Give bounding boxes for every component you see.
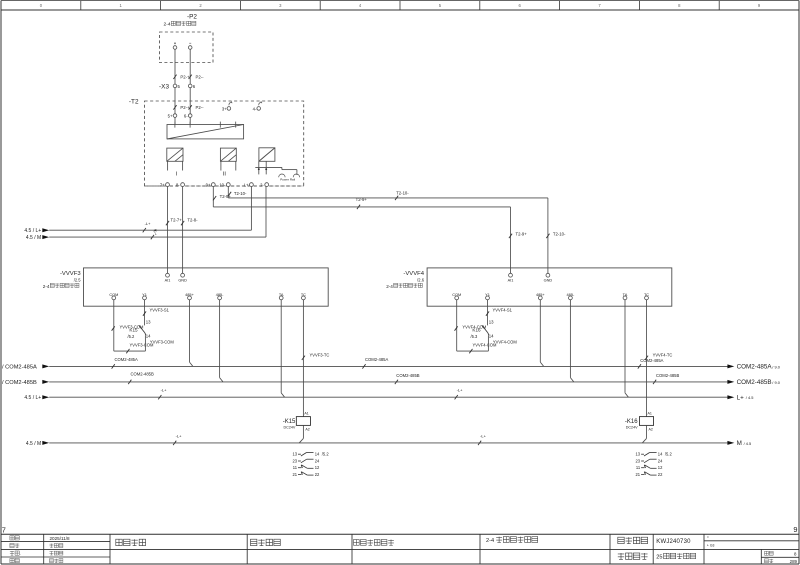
wire T2-10- to VVVF4 GND (228, 187, 566, 274)
bus L+ right arrow (727, 394, 753, 401)
VFD VVVF3 box (84, 268, 329, 306)
label DC24V K15 (284, 425, 296, 429)
svg-text:/2.5: /2.5 (74, 278, 82, 283)
svg-text:11: 11 (636, 465, 641, 470)
svg-text:TC: TC (644, 293, 649, 297)
title cell drawing name 2-4 chilled water supply pump (486, 537, 538, 544)
T2 channel II module (220, 148, 236, 170)
svg-text:T2-9+: T2-9+ (516, 231, 528, 236)
power rail symbol (279, 173, 300, 182)
svg-text:COM: COM (109, 293, 118, 297)
bus COM2-485B marks (128, 372, 679, 385)
svg-text:485+: 485+ (185, 293, 194, 297)
svg-text:COM2-485A: COM2-485A (737, 364, 773, 371)
power rail link (255, 167, 297, 172)
svg-text:24: 24 (658, 458, 663, 463)
svg-text:5+: 5+ (168, 114, 173, 119)
svg-text:T2-10-: T2-10- (553, 231, 566, 236)
svg-text:6-: 6- (184, 114, 188, 119)
svg-text:13: 13 (292, 452, 297, 457)
svg-text:Y1: Y1 (142, 293, 147, 297)
svg-text:II: II (223, 172, 227, 178)
svg-text:-K15: -K15 (283, 419, 296, 425)
svg-text:2-: 2- (260, 183, 264, 188)
T2 box bottom dashed edge (145, 185, 304, 187)
arrow 4.5/M at top (26, 235, 49, 241)
svg-text:DC24V: DC24V (626, 425, 638, 429)
svg-text:K16: K16 (472, 327, 481, 332)
terminal strip X3 (159, 84, 169, 91)
K15 contact cross reference (292, 452, 329, 477)
svg-text:YVVF3-COM: YVVF3-COM (150, 340, 174, 345)
svg-text:COM: COM (452, 293, 461, 297)
wire P2-- upper (189, 49, 191, 84)
svg-text:COM2-485B: COM2-485B (396, 373, 419, 378)
svg-text:YVVF4-COM: YVVF4-COM (493, 340, 517, 345)
VVVF4 terminal TA (623, 293, 628, 300)
svg-text:-L-: -L- (153, 229, 157, 233)
label DC24V K16 (626, 425, 638, 429)
svg-text:A2: A2 (305, 428, 309, 432)
svg-text:8-: 8- (176, 183, 180, 188)
svg-text:/ COM2-485B: / COM2-485B (2, 380, 37, 386)
label -P2 (187, 14, 197, 21)
cable mark P2-- upper (189, 74, 204, 79)
bus COM2-485A left arrow (2, 364, 49, 370)
svg-text:A1: A1 (304, 412, 308, 416)
wire T2-8- to VVVF3 GND (181, 187, 198, 274)
bus M marks (173, 433, 487, 445)
svg-text:3+: 3+ (222, 107, 227, 112)
title cell project description (116, 539, 146, 545)
svg-text:25: 25 (656, 555, 662, 561)
title block grid (1, 534, 799, 564)
P2 terminal + (173, 42, 177, 49)
label YVVF4-COM right of pin14 (493, 340, 517, 345)
title cell total count (765, 559, 798, 564)
label YVVF3-COM below contact (130, 343, 154, 348)
svg-text:485-: 485- (567, 293, 575, 297)
bus COM2-485B right arrow (727, 379, 780, 386)
svg-text:COM2-485B: COM2-485B (737, 379, 772, 386)
T2 terminal 4- (253, 101, 262, 111)
svg-text:/5.2: /5.2 (322, 452, 330, 457)
label YVVF3-COM on COM wire (120, 324, 144, 329)
svg-text:COM2-485A: COM2-485A (115, 357, 138, 362)
svg-text:7: 7 (2, 525, 6, 534)
svg-text:COM2-485B: COM2-485B (131, 372, 154, 377)
T2 terminal 6- (184, 114, 192, 119)
VVVF3 terminal 485- (216, 293, 224, 300)
label /2.5 (74, 278, 82, 283)
wire VVVF4 485- to bus B (570, 300, 573, 382)
title cell project number value (656, 539, 691, 545)
title cell plus G3 (707, 536, 715, 548)
cable mark P2-- lower (189, 105, 204, 110)
VVVF3 terminal 485+ (185, 293, 194, 300)
svg-text:AI1: AI1 (165, 278, 171, 282)
svg-text:/ 9.0: / 9.0 (772, 364, 780, 369)
svg-text:9+: 9+ (206, 183, 211, 188)
svg-text:24: 24 (315, 458, 320, 463)
svg-text:2-4: 2-4 (486, 538, 494, 544)
wire P2-+ upper (174, 49, 176, 84)
label -T2 (129, 98, 139, 105)
svg-text:.: . (20, 551, 21, 556)
svg-text:14: 14 (315, 452, 320, 457)
label /5.2 (128, 334, 136, 339)
title cell customer name (251, 539, 281, 545)
wire M feed (49, 187, 266, 240)
svg-text:14: 14 (489, 334, 494, 339)
svg-text:/ 4.5: / 4.5 (746, 395, 754, 400)
svg-text:T2-10-: T2-10- (396, 191, 409, 196)
VVVF3 terminal COM (109, 293, 118, 300)
wire VVVF3 485+ to bus A (190, 300, 193, 367)
svg-text:2-4: 2-4 (43, 284, 50, 289)
T2 channel I module (167, 148, 183, 170)
svg-text:TA: TA (279, 293, 284, 297)
svg-text:L+: L+ (737, 394, 745, 401)
svg-text:12: 12 (315, 465, 320, 470)
contact K15 13-14 (139, 319, 151, 351)
T2 terminal 3+ (222, 101, 232, 111)
svg-text:YVVF3-S1: YVVF3-S1 (150, 307, 170, 312)
wire L+ feed (49, 187, 251, 237)
svg-text:14: 14 (146, 334, 151, 339)
title cell project name value (656, 553, 695, 560)
title row designer (10, 543, 63, 547)
svg-text:-L+: -L+ (161, 388, 168, 393)
bus COM2-485B left arrow (2, 380, 49, 386)
bus COM2-485A marks (112, 357, 664, 368)
T2 power module (259, 148, 275, 175)
isolator T2 box (145, 101, 304, 186)
title row date (10, 536, 70, 541)
svg-text:-VVVF4: -VVVF4 (403, 271, 424, 277)
wire T2-9+ to VVVF4 AI1 (213, 187, 527, 274)
VVVF4 terminal 485- (567, 293, 575, 300)
wire YVVF4-TC (645, 300, 673, 417)
svg-text:L+: L+ (244, 183, 249, 188)
svg-text:11: 11 (293, 465, 298, 470)
VVVF3 terminal GND (178, 273, 187, 282)
VFD VVVF4 box (427, 268, 672, 306)
svg-text:-K16: -K16 (625, 419, 638, 425)
svg-text:-L+: -L+ (145, 221, 152, 226)
svg-text:-T2: -T2 (129, 98, 139, 105)
label -K16 (625, 419, 638, 425)
label -VVVF3 (60, 271, 81, 277)
svg-text:/5.2: /5.2 (665, 452, 673, 457)
title cell project number label (618, 537, 648, 543)
P2 terminal - (188, 43, 192, 49)
label K15 (129, 327, 138, 332)
svg-text:13: 13 (146, 319, 151, 324)
svg-text:9: 9 (793, 525, 797, 534)
VVVF3 terminal AI1 (165, 273, 171, 282)
label /2.6 (417, 278, 425, 283)
label YVVF4-COM on COM wire (462, 324, 486, 329)
wire 6- to divider (189, 117, 191, 124)
wire VVVF4 485+ to bus A (540, 300, 543, 367)
VVVF4 terminal AI1 (508, 273, 514, 282)
top ruler (1, 1, 799, 10)
svg-text:12: 12 (658, 465, 663, 470)
svg-text:-X3: -X3 (159, 84, 169, 91)
svg-text:DC24V: DC24V (284, 425, 296, 429)
svg-text:13: 13 (489, 319, 494, 324)
bus M left arrow (26, 441, 49, 447)
label 2-4floor chilled water pressure transmitter (164, 21, 196, 27)
title row checker (10, 551, 63, 556)
svg-text:7+: 7+ (160, 183, 165, 188)
svg-text:4.5 / M: 4.5 / M (26, 235, 41, 241)
title cell page count (765, 551, 798, 556)
svg-text:Y1: Y1 (485, 293, 490, 297)
svg-text:AI1: AI1 (508, 278, 514, 282)
svg-text:KWJ240730: KWJ240730 (656, 539, 691, 545)
T2 terminal L+ (244, 183, 254, 188)
title cell manufacturer (354, 540, 394, 546)
label I (176, 172, 178, 178)
svg-text:23: 23 (636, 458, 641, 463)
svg-text:2-4: 2-4 (386, 284, 393, 289)
svg-text:/5.3: /5.3 (471, 334, 479, 339)
svg-text:T2-7+: T2-7+ (171, 217, 183, 222)
svg-text:/5.2: /5.2 (128, 334, 136, 339)
wire P2-+ lower (174, 88, 176, 114)
label 2-4floor chilled water supply pump (386, 283, 422, 289)
svg-text:K15: K15 (129, 327, 138, 332)
VVVF3 terminal Y1 (142, 293, 147, 300)
svg-text:485+: 485+ (536, 293, 545, 297)
pressure transmitter P2 box (160, 32, 214, 63)
svg-text:T2-8-: T2-8- (187, 217, 198, 222)
svg-text:GND: GND (178, 278, 187, 282)
svg-text:22: 22 (658, 472, 663, 477)
svg-text:21: 21 (292, 472, 297, 477)
label /5.3 (471, 334, 479, 339)
svg-text:M: M (737, 440, 742, 447)
VVVF3 terminal TC (301, 293, 306, 300)
svg-text:+ G3: + G3 (707, 544, 715, 548)
svg-text:-L+: -L+ (457, 388, 464, 393)
bus M (49, 442, 729, 444)
svg-text:GND: GND (544, 278, 553, 282)
svg-text:COM2-485A: COM2-485A (640, 358, 663, 363)
T2 terminal 5+ (168, 114, 177, 119)
bus L+ marks (158, 388, 463, 400)
svg-text:/ 4.5: / 4.5 (744, 441, 752, 446)
arrow 4.5/L+ (24, 228, 49, 234)
svg-text:YVVF4-TC: YVVF4-TC (653, 353, 673, 358)
cable mark P2-+ upper (173, 74, 190, 79)
svg-text:21: 21 (636, 472, 641, 477)
T2 terminal 8- (176, 183, 185, 188)
bus L+ left arrow (24, 395, 49, 401)
svg-text:-L+: -L+ (176, 433, 183, 438)
svg-text:/2.6: /2.6 (417, 278, 425, 283)
X3 terminal 6 (188, 84, 195, 89)
frame border left (0, 1, 2, 564)
svg-text:T2-10-: T2-10- (234, 191, 247, 196)
svg-text:P2--: P2-- (196, 105, 205, 110)
svg-text:4.5 / L+: 4.5 / L+ (24, 395, 41, 401)
frame border right (798, 1, 800, 564)
VVVF4 terminal GND (544, 273, 553, 282)
K16 contact cross reference (636, 452, 673, 477)
svg-text:Power Rail: Power Rail (280, 178, 295, 182)
T2 terminal 7+ (160, 183, 170, 188)
svg-text:-L+: -L+ (480, 433, 487, 438)
svg-text:23: 23 (292, 458, 297, 463)
label 2-4floor chilled water supply pump (43, 283, 79, 289)
title row approver (10, 558, 63, 562)
label YVVF4-COM below contact (473, 343, 497, 348)
cable mark P2-+ lower (173, 105, 190, 110)
wire VVVF3 485- to bus B (220, 300, 223, 382)
svg-text:A2: A2 (649, 428, 653, 432)
relay coil K16 (639, 412, 653, 432)
svg-text:/ 9.0: / 9.0 (772, 380, 780, 385)
label II (223, 172, 227, 178)
svg-text:TA: TA (623, 293, 628, 297)
svg-text:485-: 485- (216, 293, 224, 297)
svg-text:YVVF4-S1: YVVF4-S1 (493, 307, 513, 312)
T2 terminal 9+ (206, 183, 216, 188)
wire T2-7+ to VVVF3 AI1 (166, 187, 182, 274)
wire K15 A2 to bus M (299, 425, 303, 443)
VVVF4 terminal Y1 (485, 293, 490, 300)
svg-text:/ COM2-485A: / COM2-485A (2, 365, 37, 371)
VVVF4 terminal COM (452, 293, 461, 300)
VVVF3 terminal TA (279, 293, 284, 300)
svg-text:YVVF3-TC: YVVF3-TC (310, 353, 330, 358)
svg-text:-P2: -P2 (187, 14, 197, 21)
sheet ref 9 (793, 525, 797, 534)
contact K16 13-14 (482, 319, 494, 351)
bus L+ (49, 396, 729, 398)
label -VVVF4 (403, 271, 424, 277)
X3 terminal 5 (173, 84, 180, 89)
svg-text:A1: A1 (648, 412, 652, 416)
svg-text:4.5 / M: 4.5 / M (26, 441, 41, 447)
svg-text:4.5 / L+: 4.5 / L+ (24, 228, 41, 234)
T2 input divider (167, 122, 244, 139)
bus COM2-485A (49, 365, 729, 367)
bus COM2-485A right arrow (727, 364, 780, 371)
svg-text:P2--: P2-- (196, 74, 205, 79)
wire YVVF3-COM (112, 300, 146, 354)
svg-text:COM2-485B: COM2-485B (656, 373, 679, 378)
label -K15 (283, 419, 296, 425)
svg-text:22: 22 (315, 472, 320, 477)
wire YVVF3-S1 (143, 300, 170, 326)
wire VVVF4 TA to bus L+ (625, 300, 628, 397)
T2 terminal 2- (260, 183, 269, 188)
svg-text:10-: 10- (219, 183, 226, 188)
label YVVF3-COM right of pin14 (150, 340, 174, 345)
svg-text:289: 289 (790, 559, 798, 564)
wire YVVF4-S1 (486, 300, 513, 326)
svg-text:-VVVF3: -VVVF3 (60, 271, 81, 277)
relay coil K15 (296, 412, 310, 432)
svg-text:14: 14 (658, 452, 663, 457)
title cell project name label (618, 553, 648, 559)
VVVF4 terminal 485+ (536, 293, 545, 300)
sheet ref 7 (2, 525, 6, 534)
svg-text:4-: 4- (253, 107, 257, 112)
svg-text:=: = (707, 536, 709, 540)
svg-text:13: 13 (636, 452, 641, 457)
wire K16 A2 to bus M (642, 425, 646, 443)
T2 terminal 10- (219, 183, 230, 188)
svg-text:2-4: 2-4 (164, 22, 171, 28)
wire YVVF4-COM (455, 300, 489, 354)
wire VVVF3 TA to bus L+ (281, 300, 284, 397)
bus COM2-485B (49, 381, 729, 383)
wire P2-- lower (189, 88, 191, 114)
label K16 (472, 327, 481, 332)
VVVF4 terminal TC (644, 293, 649, 300)
bus M right arrow (727, 440, 751, 447)
wire 5+ to divider (174, 117, 176, 124)
wire YVVF3-TC (302, 300, 330, 417)
svg-text:2025/11/8: 2025/11/8 (50, 536, 71, 541)
svg-text:TC: TC (301, 293, 306, 297)
svg-text:COM2-485A: COM2-485A (365, 357, 388, 362)
